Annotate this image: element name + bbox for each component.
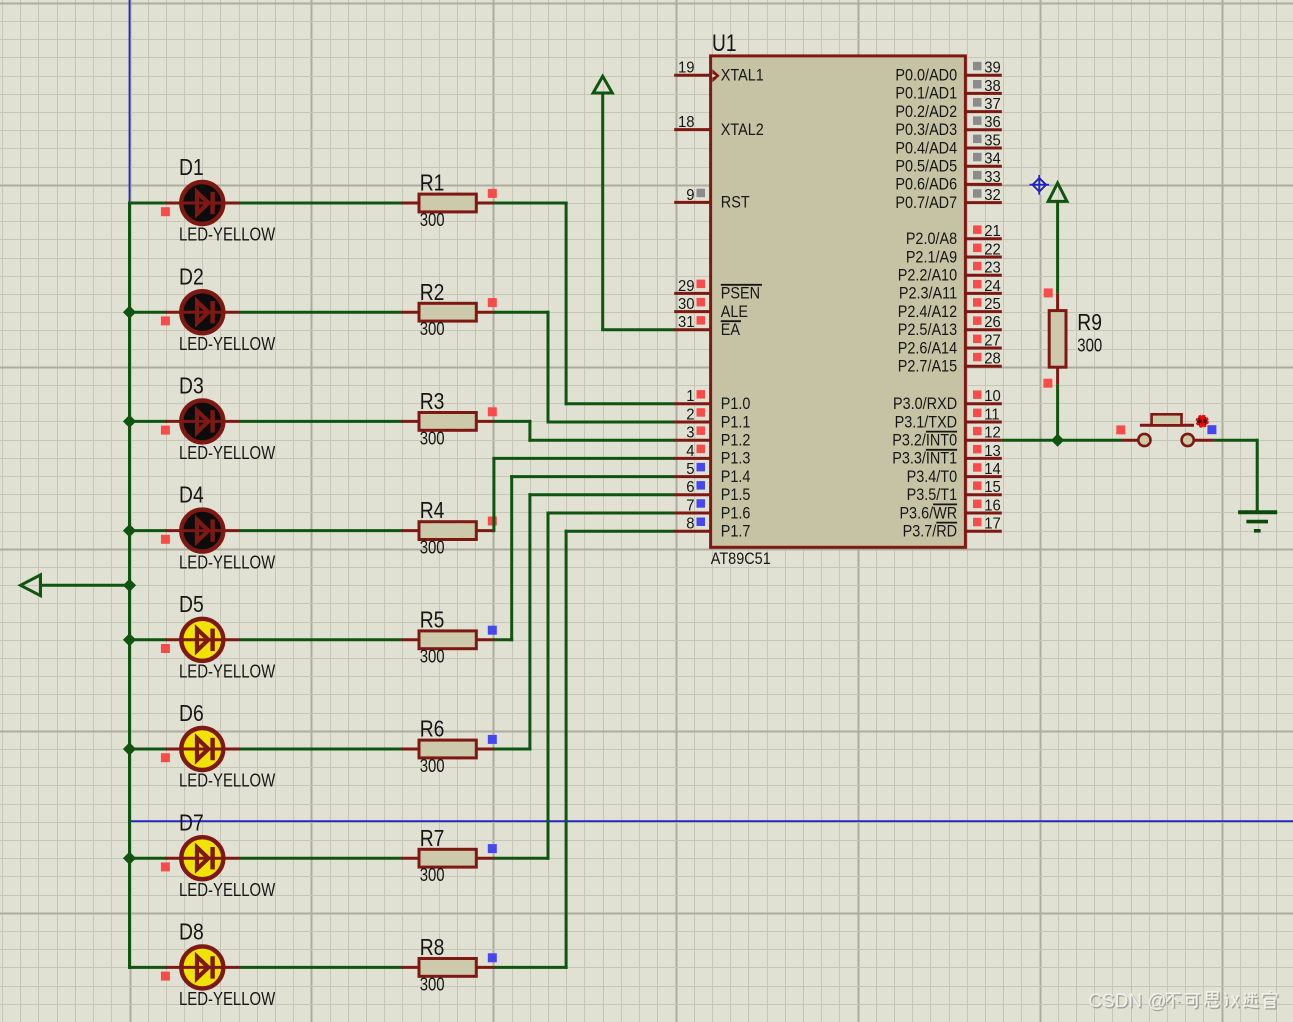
wire: D6 to R6 bbox=[239, 748, 403, 751]
svg-text:R6: R6 bbox=[420, 717, 445, 742]
svg-text:D1: D1 bbox=[179, 156, 204, 181]
svg-text:P1.4: P1.4 bbox=[721, 468, 751, 486]
svg-text:LED-YELLOW: LED-YELLOW bbox=[179, 770, 276, 791]
svg-text:15: 15 bbox=[984, 479, 1001, 497]
pin 9 state square bbox=[697, 189, 706, 198]
junction on bus at D2 row bbox=[123, 306, 136, 319]
svg-text:XTAL1: XTAL1 bbox=[721, 67, 764, 85]
svg-text:4: 4 bbox=[686, 442, 695, 460]
pin 26 P2.5/A13 (right) bbox=[965, 328, 1001, 331]
junction on bus at D7 row bbox=[123, 852, 136, 865]
watermark char 议 bbox=[1226, 994, 1240, 1008]
wire: R1 to pin P1.0 bbox=[494, 202, 568, 205]
pin 6 state square bbox=[697, 481, 706, 490]
svg-text:D8: D8 bbox=[179, 920, 204, 945]
svg-text:D3: D3 bbox=[179, 374, 204, 399]
svg-text:300: 300 bbox=[1077, 335, 1102, 356]
watermark char 不 bbox=[1167, 995, 1182, 1009]
pin 31 EA (left) bbox=[674, 328, 710, 331]
svg-text:22: 22 bbox=[984, 241, 1001, 259]
svg-text:R9: R9 bbox=[1077, 310, 1102, 335]
svg-text:P0.0/AD0: P0.0/AD0 bbox=[895, 67, 957, 85]
vertical blue origin line bbox=[129, 0, 131, 203]
wire: power to EA pin bbox=[601, 93, 604, 330]
svg-text:P1.0: P1.0 bbox=[721, 395, 751, 413]
watermark char 可 bbox=[1186, 995, 1201, 1009]
wire: D5 to R5 bbox=[239, 638, 403, 641]
svg-text:P2.7/A15: P2.7/A15 bbox=[898, 358, 957, 376]
svg-text:37: 37 bbox=[984, 96, 1001, 114]
pin 21 state square bbox=[973, 225, 982, 234]
overline for INT0 bbox=[926, 431, 957, 433]
svg-text:18: 18 bbox=[678, 114, 695, 132]
pin 3 state square bbox=[697, 426, 706, 435]
pin 23 state square bbox=[973, 262, 982, 271]
R8 state square bbox=[488, 953, 497, 962]
svg-text:P0.2/AD2: P0.2/AD2 bbox=[895, 103, 957, 121]
svg-text:P3.6/WR: P3.6/WR bbox=[899, 505, 957, 523]
pin 33 P0.6/AD6 (right) bbox=[965, 183, 1001, 186]
svg-text:12: 12 bbox=[984, 424, 1001, 442]
LED D6 (on) bbox=[165, 728, 239, 770]
svg-text:3: 3 bbox=[686, 424, 694, 442]
wire: bus stub to D6 bbox=[128, 748, 167, 751]
LED D3 state square (high) bbox=[161, 426, 170, 435]
wire: bus stub to D7 bbox=[128, 857, 167, 860]
LED D1 (off) bbox=[165, 182, 239, 224]
junction on bus at arrow row bbox=[123, 579, 136, 592]
pin 38 P0.1/AD1 (right) bbox=[965, 92, 1001, 95]
button right state square (low) bbox=[1207, 425, 1216, 434]
svg-text:300: 300 bbox=[420, 428, 445, 449]
overline for RD bbox=[936, 522, 957, 524]
R9 top state square bbox=[1044, 288, 1053, 297]
R1 state square bbox=[488, 189, 497, 198]
pin 10 state square bbox=[973, 390, 982, 399]
pin 5 state square bbox=[697, 463, 706, 472]
pin 7 state square bbox=[697, 499, 706, 508]
pin 11 P3.1/TXD (right) bbox=[965, 421, 1001, 424]
svg-text:P0.3/AD3: P0.3/AD3 bbox=[895, 121, 957, 139]
wire: bus stub to D1 bbox=[128, 202, 167, 205]
pin 26 state square bbox=[973, 316, 982, 325]
pin 39 P0.0/AD0 (right) bbox=[965, 74, 1001, 77]
svg-text:P3.1/TXD: P3.1/TXD bbox=[895, 414, 957, 432]
resistor R3 bbox=[402, 413, 495, 431]
svg-text:LED-YELLOW: LED-YELLOW bbox=[179, 334, 276, 355]
wire: left vertical bus bbox=[128, 202, 131, 969]
pin 12 state square bbox=[973, 427, 982, 436]
svg-text:CSDN @: CSDN @ bbox=[1088, 991, 1166, 1012]
svg-text:P3.5/T1: P3.5/T1 bbox=[907, 486, 957, 504]
pin 9 RST (left) bbox=[674, 201, 710, 204]
push button bbox=[1121, 414, 1214, 446]
junction on bus at D4 row bbox=[123, 524, 136, 537]
pin 35 P0.4/AD4 (right) bbox=[965, 147, 1001, 150]
pin 4 P1.3 (left) bbox=[674, 457, 710, 460]
svg-text:D6: D6 bbox=[179, 702, 204, 727]
svg-text:U1: U1 bbox=[712, 29, 737, 57]
junction on bus at D6 row bbox=[123, 742, 136, 755]
pin 37 P0.2/AD2 (right) bbox=[965, 110, 1001, 113]
svg-text:11: 11 bbox=[984, 406, 999, 424]
svg-text:P3.3/INT1: P3.3/INT1 bbox=[892, 450, 957, 468]
svg-text:300: 300 bbox=[420, 319, 445, 340]
svg-text:34: 34 bbox=[984, 150, 1001, 168]
svg-text:P0.5/AD5: P0.5/AD5 bbox=[895, 158, 957, 176]
pin 30 ALE (left) bbox=[674, 310, 710, 313]
LED D8 (on) bbox=[165, 946, 239, 988]
R7 state square bbox=[488, 844, 497, 853]
pin 7 P1.6 (left) bbox=[674, 512, 710, 515]
svg-text:P0.6/AD6: P0.6/AD6 bbox=[895, 176, 957, 194]
resistor R6 bbox=[402, 740, 495, 758]
wire: bus stub to D4 bbox=[128, 529, 167, 532]
watermark char 迷 bbox=[1245, 994, 1260, 1009]
resistor R4 bbox=[402, 522, 495, 540]
svg-text:LED-YELLOW: LED-YELLOW bbox=[179, 552, 276, 573]
svg-text:R8: R8 bbox=[420, 936, 445, 961]
pin 36 P0.3/AD3 (right) bbox=[965, 128, 1001, 131]
wire: R8 to pin P1.7 bbox=[494, 966, 568, 969]
button actuator toggle bbox=[1197, 416, 1208, 427]
svg-text:17: 17 bbox=[984, 515, 1001, 533]
R2 state square bbox=[488, 298, 497, 307]
wire: bus stub to D3 bbox=[128, 420, 167, 423]
pin 15 state square bbox=[973, 481, 982, 490]
pin 14 P3.4/T0 (right) bbox=[965, 475, 1001, 478]
svg-text:300: 300 bbox=[420, 865, 445, 886]
pin 15 P3.5/T1 (right) bbox=[965, 493, 1001, 496]
svg-text:R3: R3 bbox=[420, 390, 445, 415]
svg-text:D7: D7 bbox=[179, 811, 204, 836]
resistor R1 bbox=[402, 194, 495, 212]
svg-text:P3.2/INT0: P3.2/INT0 bbox=[892, 432, 957, 450]
R5 state square bbox=[488, 626, 497, 635]
svg-text:31: 31 bbox=[678, 314, 695, 332]
LED D3 (off) bbox=[165, 400, 239, 442]
svg-text:36: 36 bbox=[984, 114, 1001, 132]
pin 33 state square bbox=[973, 171, 982, 180]
pin 21 P2.0/A8 (right) bbox=[965, 237, 1001, 240]
svg-text:D4: D4 bbox=[179, 483, 204, 508]
watermark char 宫 bbox=[1264, 992, 1278, 1009]
svg-text:1: 1 bbox=[686, 388, 694, 406]
svg-text:24: 24 bbox=[984, 277, 1001, 295]
svg-text:D5: D5 bbox=[179, 592, 204, 617]
pin 28 state square bbox=[973, 353, 982, 362]
svg-text:13: 13 bbox=[984, 442, 1001, 460]
svg-text:P2.3/A11: P2.3/A11 bbox=[899, 285, 957, 303]
wire: D3 to R3 bbox=[239, 420, 403, 423]
svg-text:300: 300 bbox=[420, 210, 445, 231]
pin 16 state square bbox=[973, 500, 982, 509]
svg-text:R7: R7 bbox=[420, 826, 445, 851]
pin 18 XTAL2 (left) bbox=[674, 128, 710, 131]
LED D5 state square (high) bbox=[161, 644, 170, 653]
pin 22 P2.1/A9 (right) bbox=[965, 256, 1001, 259]
svg-text:P1.3: P1.3 bbox=[721, 450, 751, 468]
pin 39 state square bbox=[973, 62, 982, 71]
pin 28 P2.7/A15 (right) bbox=[965, 365, 1001, 368]
svg-text:P3.7/RD: P3.7/RD bbox=[903, 523, 957, 541]
pin 13 state square bbox=[973, 445, 982, 454]
clock marker at XTAL1 bbox=[712, 69, 719, 82]
pin 14 state square bbox=[973, 463, 982, 472]
pin 24 state square bbox=[973, 280, 982, 289]
overline for INT1 bbox=[926, 449, 957, 451]
svg-text:P1.2: P1.2 bbox=[721, 432, 751, 450]
overline for WR bbox=[933, 503, 957, 505]
svg-text:ALE: ALE bbox=[721, 303, 748, 321]
overline for PSEN bbox=[721, 284, 762, 286]
pin 24 P2.3/A11 (right) bbox=[965, 292, 1001, 295]
pin 30 state square bbox=[697, 298, 706, 307]
pin 22 state square bbox=[973, 244, 982, 253]
svg-text:P1.5: P1.5 bbox=[721, 486, 751, 504]
svg-text:9: 9 bbox=[686, 186, 694, 204]
svg-text:5: 5 bbox=[686, 461, 694, 479]
pin 1 P1.0 (left) bbox=[674, 402, 710, 405]
LED D1 state square (high) bbox=[161, 207, 170, 216]
svg-text:P2.0/A8: P2.0/A8 bbox=[906, 230, 957, 248]
junction at R9 bottom bbox=[1051, 434, 1064, 447]
pin 10 P3.0/RXD (right) bbox=[965, 402, 1001, 405]
pin 17 P3.7/RD (right) bbox=[965, 530, 1001, 533]
pin 13 P3.3/INT1 (right) bbox=[965, 457, 1001, 460]
R4 state square bbox=[488, 517, 497, 526]
svg-text:P0.4/AD4: P0.4/AD4 bbox=[895, 140, 957, 158]
svg-text:32: 32 bbox=[984, 187, 1001, 205]
svg-text:LED-YELLOW: LED-YELLOW bbox=[179, 989, 276, 1010]
wire: bus stub to D8 bbox=[128, 966, 167, 969]
power arrow (right, for R9) bbox=[1048, 183, 1067, 201]
svg-text:P1.1: P1.1 bbox=[721, 414, 751, 432]
pin 2 state square bbox=[697, 408, 706, 417]
pin 29 PSEN (left) bbox=[674, 292, 710, 295]
svg-text:P2.5/A13: P2.5/A13 bbox=[898, 321, 957, 339]
pin 6 P1.5 (left) bbox=[674, 493, 710, 496]
svg-text:300: 300 bbox=[420, 756, 445, 777]
svg-text:AT89C51: AT89C51 bbox=[711, 550, 771, 568]
junction on bus at D5 row bbox=[123, 633, 136, 646]
svg-text:EA: EA bbox=[721, 321, 741, 339]
svg-text:R5: R5 bbox=[420, 608, 445, 633]
svg-text:LED-YELLOW: LED-YELLOW bbox=[179, 443, 276, 464]
wire: button to ground bbox=[1214, 439, 1257, 442]
power arrow (left, pointing left) bbox=[39, 584, 130, 587]
svg-text:8: 8 bbox=[686, 515, 694, 533]
wire: R9 to net bbox=[1056, 384, 1059, 440]
watermark CSDN bbox=[1088, 991, 1168, 1013]
wire: bus stub to D2 bbox=[128, 311, 167, 314]
pin 34 P0.5/AD5 (right) bbox=[965, 165, 1001, 168]
svg-text:D2: D2 bbox=[179, 265, 204, 290]
svg-text:R4: R4 bbox=[420, 499, 445, 524]
wire: bus stub to D5 bbox=[128, 638, 167, 641]
svg-text:RST: RST bbox=[721, 194, 750, 212]
blue crosshair marker bbox=[1030, 175, 1050, 195]
wire: R6 to pin P1.5 bbox=[494, 748, 532, 751]
svg-text:P1.6: P1.6 bbox=[721, 505, 751, 523]
svg-text:P2.6/A14: P2.6/A14 bbox=[898, 340, 958, 358]
resistor R9 bbox=[1049, 293, 1066, 384]
svg-text:300: 300 bbox=[420, 537, 445, 558]
resistor R2 bbox=[402, 303, 495, 321]
pin 4 state square bbox=[697, 445, 706, 454]
svg-text:300: 300 bbox=[420, 646, 445, 667]
svg-text:38: 38 bbox=[984, 77, 1001, 95]
pin 31 state square bbox=[697, 316, 706, 325]
svg-text:P2.1/A9: P2.1/A9 bbox=[906, 249, 957, 267]
svg-text:25: 25 bbox=[984, 296, 1001, 314]
svg-text:LED-YELLOW: LED-YELLOW bbox=[179, 880, 276, 901]
wire: D1 to R1 bbox=[239, 202, 403, 205]
wire: R2 to pin P1.1 bbox=[494, 311, 550, 314]
pin 32 P0.7/AD7 (right) bbox=[965, 201, 1001, 204]
pin 19 XTAL1 (left) bbox=[674, 74, 710, 77]
svg-text:P0.1/AD1: P0.1/AD1 bbox=[895, 85, 957, 103]
LED D4 state square (high) bbox=[161, 535, 170, 544]
svg-text:2: 2 bbox=[686, 406, 694, 424]
resistor R5 bbox=[402, 631, 495, 649]
svg-text:P3.0/RXD: P3.0/RXD bbox=[893, 395, 957, 413]
svg-text:R1: R1 bbox=[420, 171, 445, 196]
pin 23 P2.2/A10 (right) bbox=[965, 274, 1001, 277]
svg-text:7: 7 bbox=[686, 497, 694, 515]
svg-text:30: 30 bbox=[678, 296, 695, 314]
pin 25 P2.4/A12 (right) bbox=[965, 310, 1001, 313]
power arrow (top, for EA) bbox=[593, 76, 612, 93]
svg-text:XTAL2: XTAL2 bbox=[721, 121, 764, 139]
svg-text:21: 21 bbox=[984, 223, 1001, 241]
LED D2 state square (high) bbox=[161, 316, 170, 325]
svg-text:26: 26 bbox=[984, 314, 1001, 332]
wire: D8 to R8 bbox=[239, 966, 403, 969]
junction on bus at D3 row bbox=[123, 415, 136, 428]
svg-text:PSEN: PSEN bbox=[721, 285, 760, 303]
pin 25 state square bbox=[973, 298, 982, 307]
pin 27 state square bbox=[973, 335, 982, 344]
R6 state square bbox=[488, 735, 497, 744]
pin 5 P1.4 (left) bbox=[674, 475, 710, 478]
svg-text:P2.4/A12: P2.4/A12 bbox=[898, 303, 957, 321]
svg-text:27: 27 bbox=[984, 332, 1001, 350]
LED D8 state square (high) bbox=[161, 972, 170, 981]
svg-text:28: 28 bbox=[984, 350, 1001, 368]
svg-text:39: 39 bbox=[984, 59, 1001, 77]
svg-text:6: 6 bbox=[686, 479, 694, 497]
R9 bottom state square bbox=[1043, 379, 1052, 388]
svg-text:10: 10 bbox=[984, 388, 1001, 406]
svg-text:P1.7: P1.7 bbox=[721, 523, 751, 541]
wire: P3.2 to button bbox=[1002, 439, 1121, 442]
LED D6 state square (high) bbox=[161, 753, 170, 762]
pin 1 state square bbox=[697, 390, 706, 399]
pin 16 P3.6/WR (right) bbox=[965, 512, 1001, 515]
resistor R8 bbox=[402, 959, 495, 977]
wire: power to R9 bbox=[1056, 201, 1059, 293]
svg-text:P3.4/T0: P3.4/T0 bbox=[907, 468, 957, 486]
svg-text:LED-YELLOW: LED-YELLOW bbox=[179, 661, 276, 682]
LED D2 (off) bbox=[165, 291, 239, 333]
pin 34 state square bbox=[973, 153, 982, 162]
svg-text:300: 300 bbox=[420, 974, 445, 995]
ground symbol bbox=[1238, 512, 1277, 531]
LED D7 state square (high) bbox=[161, 862, 170, 871]
horizontal blue origin line bbox=[130, 820, 1293, 822]
pin 17 state square bbox=[973, 518, 982, 527]
pin 8 P1.7 (left) bbox=[674, 530, 710, 533]
wire: R3 to pin P1.2 bbox=[494, 420, 532, 423]
pin 37 state square bbox=[973, 98, 982, 107]
op: AT89C51 chip body U1 bbox=[711, 56, 966, 547]
watermark char 思 bbox=[1206, 993, 1220, 1008]
pin 11 state square bbox=[973, 409, 982, 418]
wire: R7 to pin P1.6 bbox=[494, 857, 550, 860]
pin 8 state square bbox=[697, 518, 706, 527]
R3 state square bbox=[488, 407, 497, 416]
LED D7 (on) bbox=[165, 837, 239, 879]
pin 38 state square bbox=[973, 80, 982, 89]
button left state square (high) bbox=[1116, 425, 1125, 434]
wire: D7 to R7 bbox=[239, 857, 403, 860]
svg-text:19: 19 bbox=[678, 59, 695, 77]
wire: R5 to pin P1.4 bbox=[494, 638, 513, 641]
svg-text:LED-YELLOW: LED-YELLOW bbox=[179, 224, 276, 245]
pin 36 state square bbox=[973, 116, 982, 125]
wire: D4 to R4 bbox=[239, 529, 403, 532]
svg-text:29: 29 bbox=[678, 277, 695, 295]
pin 12 P3.2/INT0 (right) bbox=[965, 439, 1001, 442]
LED D4 (off) bbox=[165, 510, 239, 552]
svg-text:P0.7/AD7: P0.7/AD7 bbox=[895, 194, 957, 212]
pin 35 state square bbox=[973, 135, 982, 144]
pin 3 P1.2 (left) bbox=[674, 439, 710, 442]
svg-text:14: 14 bbox=[984, 461, 1001, 479]
svg-text:P2.2/A10: P2.2/A10 bbox=[898, 267, 957, 285]
pin 29 state square bbox=[697, 280, 706, 289]
resistor R7 bbox=[402, 849, 495, 867]
svg-text:35: 35 bbox=[984, 132, 1001, 150]
wire: D2 to R2 bbox=[239, 311, 403, 314]
svg-text:R2: R2 bbox=[420, 280, 445, 305]
pin 32 state square bbox=[973, 189, 982, 198]
wire: R4 to pin P1.3 bbox=[492, 457, 495, 532]
svg-text:23: 23 bbox=[984, 259, 1001, 277]
pin 2 P1.1 (left) bbox=[674, 421, 710, 424]
svg-text:33: 33 bbox=[984, 168, 1001, 186]
LED D5 (on) bbox=[165, 619, 239, 661]
svg-text:16: 16 bbox=[984, 497, 1001, 515]
pin 27 P2.6/A14 (right) bbox=[965, 347, 1001, 350]
overline for EA bbox=[721, 320, 741, 322]
